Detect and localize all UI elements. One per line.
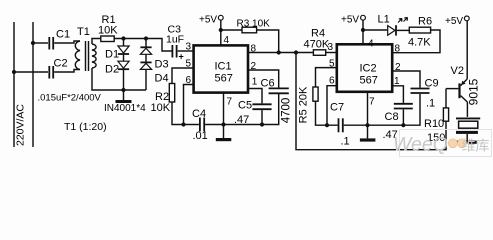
svg-text:IN4001*4: IN4001*4 bbox=[104, 103, 146, 114]
svg-text:5: 5 bbox=[329, 59, 335, 70]
power +5V terminal IC1 bbox=[199, 15, 223, 31]
resistor R1 bbox=[98, 14, 118, 42]
wire AC line left bbox=[13, 22, 15, 147]
wire R1 to bridge top bbox=[114, 39, 171, 52]
node junction pin7 IC2 bus bbox=[365, 123, 369, 127]
wire base V2 bbox=[446, 88, 458, 90]
resistor R5 bbox=[298, 68, 338, 126]
svg-text:T1 (1:20): T1 (1:20) bbox=[64, 121, 107, 133]
ground IC1 bbox=[216, 125, 232, 142]
svg-text:WeeQ: WeeQ bbox=[393, 134, 448, 156]
svg-text:3: 3 bbox=[186, 42, 192, 53]
wire collector down bbox=[466, 102, 468, 117]
node junction C8 bus bbox=[401, 123, 405, 127]
svg-text:C6: C6 bbox=[261, 78, 275, 90]
wire pin4 IC2 bbox=[362, 30, 364, 44]
capacitor C9 bbox=[392, 71, 438, 110]
core bbox=[85, 41, 87, 71]
wire bus C4 to C6 bbox=[205, 94, 279, 125]
primary winding bbox=[75, 41, 80, 70]
op-amp U IC2 box bbox=[337, 44, 392, 92]
secondary winding bbox=[92, 44, 96, 68]
svg-text:4700: 4700 bbox=[281, 98, 293, 124]
svg-text:.015uF*2/400V: .015uF*2/400V bbox=[38, 93, 102, 104]
node junction +5V IC2 bbox=[361, 28, 365, 32]
svg-text:C1: C1 bbox=[56, 29, 70, 41]
transistor V2 bbox=[451, 65, 481, 105]
svg-text:1uF: 1uF bbox=[166, 34, 184, 46]
wire to C2 bbox=[14, 71, 48, 73]
svg-text:R6: R6 bbox=[418, 16, 432, 28]
secondary top lead bbox=[92, 39, 101, 45]
svg-text:维库: 维库 bbox=[462, 138, 490, 154]
power +5V terminal IC2 bbox=[341, 15, 365, 31]
svg-text:C9: C9 bbox=[425, 78, 439, 90]
resistor R10 bbox=[424, 89, 449, 144]
wire +5V to emitter bbox=[466, 21, 468, 79]
wire pin6 IC1 bbox=[184, 85, 194, 125]
svg-text:220V/AC: 220V/AC bbox=[15, 104, 27, 146]
svg-text:+5V: +5V bbox=[445, 16, 463, 27]
capacitor C1 bbox=[49, 29, 70, 50]
svg-text:T1: T1 bbox=[77, 26, 90, 38]
watermark WeeQoo bbox=[393, 130, 492, 157]
capacitor C7 bbox=[330, 102, 350, 148]
wire C3 to IC1 pin3 bbox=[178, 50, 194, 52]
capacitor C6 bbox=[248, 70, 293, 123]
power +5V terminal right bbox=[445, 16, 469, 27]
svg-text:IC2: IC2 bbox=[360, 63, 377, 75]
node junction pin6 IC2 bus bbox=[325, 123, 329, 127]
wire bridge bottom bbox=[110, 89, 146, 91]
svg-text:7: 7 bbox=[227, 97, 233, 108]
node junction R3 drop bbox=[277, 50, 281, 54]
svg-text:470K: 470K bbox=[304, 39, 330, 51]
diode D3 bbox=[140, 39, 168, 71]
wire C1 to transformer primary top bbox=[54, 41, 80, 43]
svg-text:R10: R10 bbox=[424, 118, 444, 130]
node junction C1 tap bbox=[31, 41, 35, 45]
op-amp U IC1 box bbox=[194, 45, 248, 92]
svg-text:R5 20K: R5 20K bbox=[298, 86, 310, 123]
wire to C1 bbox=[33, 42, 48, 44]
svg-text:10K: 10K bbox=[98, 25, 118, 37]
capacitor C5 bbox=[234, 89, 272, 127]
svg-text:+: + bbox=[179, 52, 184, 62]
capacitor C3 bbox=[166, 24, 184, 62]
svg-text:4: 4 bbox=[224, 35, 230, 46]
node junction C5 bus bbox=[260, 122, 264, 126]
ground bridge bbox=[116, 90, 132, 103]
svg-text:+5V: +5V bbox=[199, 15, 217, 26]
svg-text:4: 4 bbox=[368, 39, 374, 50]
resistor R6 bbox=[392, 16, 440, 53]
wire C2 to transformer primary bottom bbox=[54, 70, 80, 73]
wire pin7 IC2 bbox=[367, 92, 369, 126]
wire pin7 IC1 bbox=[223, 93, 225, 125]
node junction base feed bbox=[294, 50, 298, 54]
svg-text:1: 1 bbox=[252, 77, 258, 88]
buzzer crystal Y1 bbox=[455, 118, 480, 143]
svg-text:+5V: +5V bbox=[341, 15, 359, 26]
diode D4 bbox=[140, 54, 168, 90]
svg-text:C7: C7 bbox=[330, 102, 344, 114]
node junction D1 top bbox=[121, 36, 125, 40]
capacitor C2 bbox=[49, 58, 67, 79]
capacitor C4 bbox=[192, 108, 208, 142]
ground IC2 bbox=[360, 125, 376, 141]
svg-text:3: 3 bbox=[328, 42, 334, 53]
wire pin4 IC1 bbox=[220, 30, 222, 45]
wire bus C7 to C9 bbox=[344, 94, 420, 125]
svg-text:10K: 10K bbox=[151, 102, 171, 114]
node junction C2 tap bbox=[12, 70, 16, 74]
resistor R3 bbox=[221, 19, 279, 53]
svg-text:C2: C2 bbox=[54, 58, 68, 70]
svg-text:.1: .1 bbox=[341, 136, 350, 148]
node junction pin7 bus bbox=[221, 122, 225, 126]
wire pin6 IC2 bbox=[327, 86, 337, 126]
wire R4 to IC2 pin3 bbox=[326, 52, 337, 54]
svg-text:D3: D3 bbox=[155, 59, 169, 71]
svg-text:IC1: IC1 bbox=[215, 61, 232, 73]
svg-text:L1: L1 bbox=[378, 14, 390, 26]
svg-text:567: 567 bbox=[215, 73, 233, 85]
resistor R2 bbox=[151, 68, 199, 125]
svg-text:.01: .01 bbox=[193, 130, 208, 142]
svg-text:7: 7 bbox=[369, 97, 375, 108]
svg-text:D4: D4 bbox=[155, 73, 169, 85]
svg-text:C8: C8 bbox=[385, 111, 399, 123]
svg-text:.1: .1 bbox=[426, 98, 435, 110]
svg-text:D1: D1 bbox=[105, 49, 119, 61]
node junction bridge bottom bbox=[121, 88, 125, 92]
resistor R4 bbox=[304, 28, 330, 56]
wire base feed bottom run bbox=[296, 53, 446, 150]
svg-text:6: 6 bbox=[329, 76, 335, 87]
secondary bottom lead bbox=[92, 68, 110, 90]
svg-text:4.7K: 4.7K bbox=[408, 37, 431, 49]
diode D2 bbox=[105, 55, 129, 90]
svg-text:9015: 9015 bbox=[467, 78, 481, 105]
diode D1 bbox=[105, 39, 129, 61]
svg-text:V2: V2 bbox=[451, 65, 464, 77]
transformer T1 bbox=[75, 26, 110, 90]
node junction +5V IC1 bbox=[219, 28, 223, 32]
LED L1 bbox=[363, 14, 409, 36]
node junction pin6 bus bbox=[181, 122, 185, 126]
capacitor C8 bbox=[383, 86, 413, 141]
wire IC1 pin8 output bbox=[248, 52, 313, 54]
svg-text:D2: D2 bbox=[105, 64, 119, 76]
svg-text:.47: .47 bbox=[234, 114, 249, 126]
svg-text:567: 567 bbox=[360, 75, 378, 87]
node junction D3 top bbox=[144, 36, 148, 40]
svg-text:C5: C5 bbox=[238, 100, 252, 112]
wire AC line right bbox=[32, 22, 34, 147]
